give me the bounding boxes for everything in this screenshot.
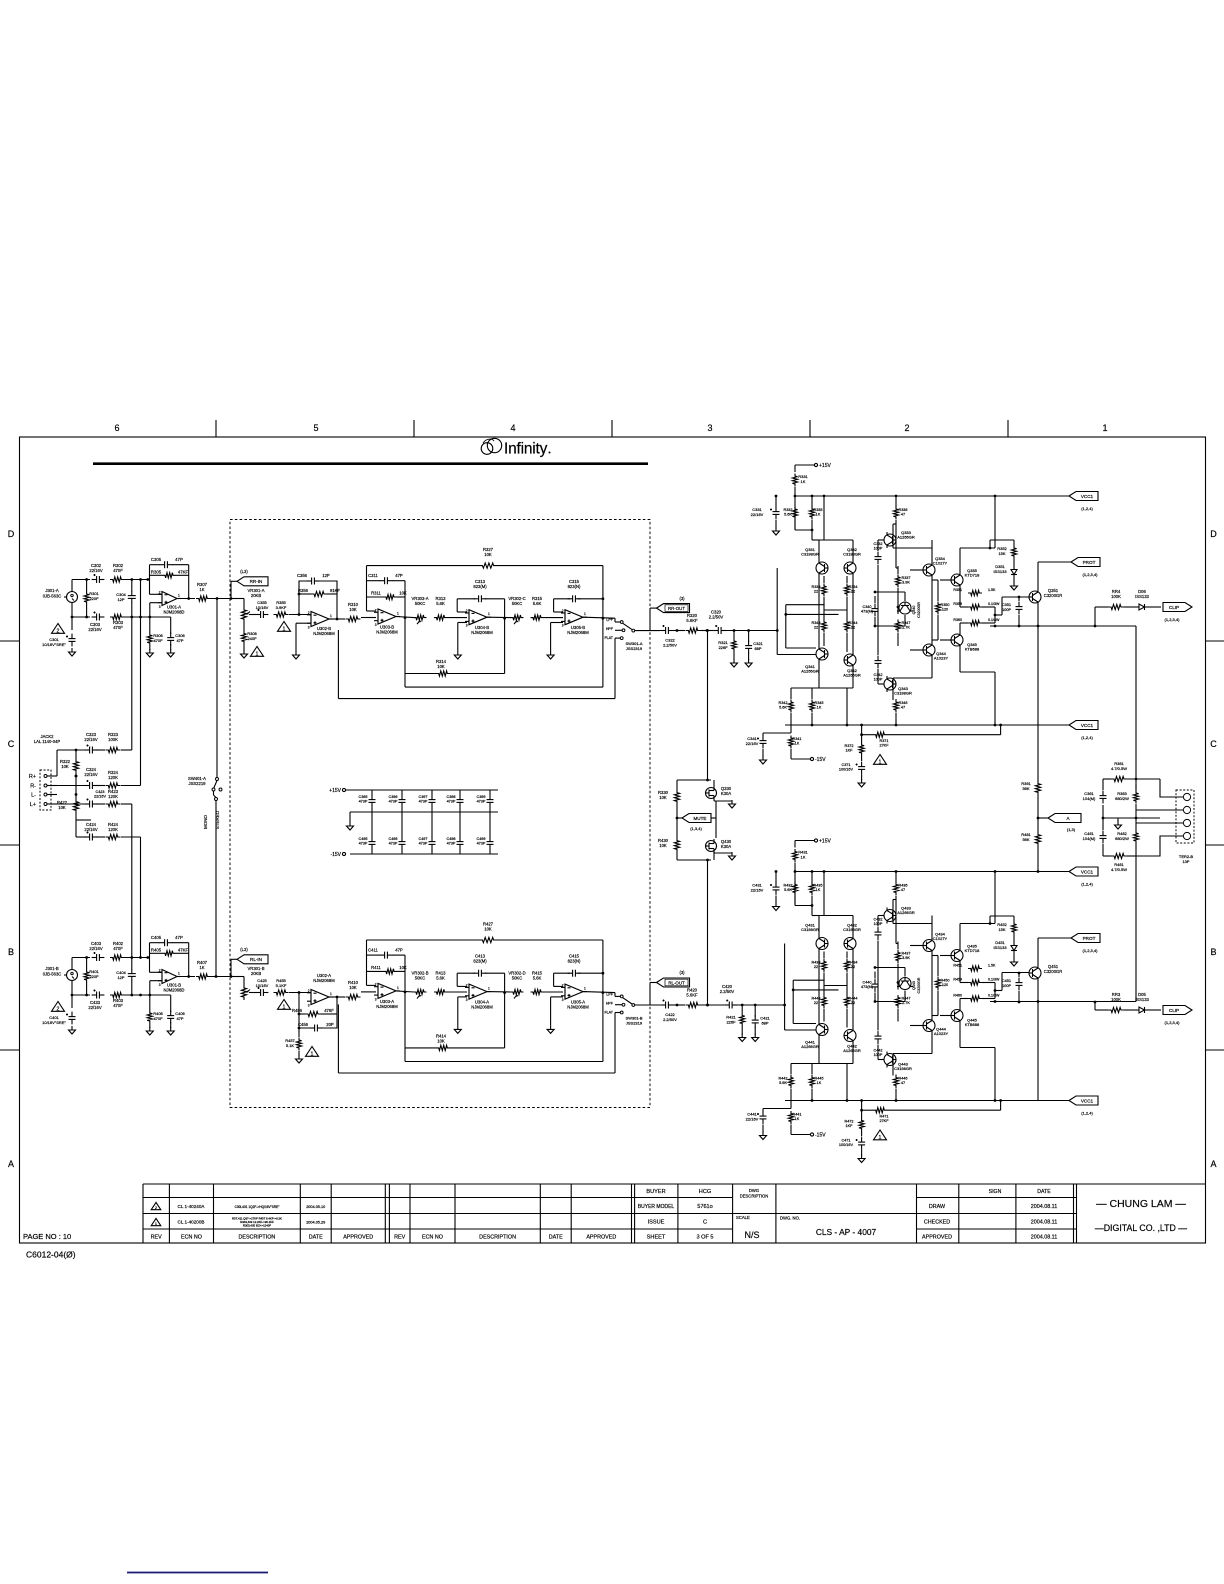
svg-text:C: C [1210, 739, 1217, 749]
ground [146, 1027, 153, 1035]
svg-text:K30A: K30A [721, 791, 731, 796]
flag RL-OUT [650, 970, 690, 1005]
svg-text:10/16V: 10/16V [256, 983, 269, 988]
resistor R402 [110, 941, 124, 960]
svg-text:4.7/0.5W: 4.7/0.5W [1111, 766, 1127, 771]
connector TER2-B [1176, 790, 1194, 864]
wire [1037, 562, 1071, 781]
op-amp U302-A [307, 973, 335, 1007]
flag VCC1 upper [1069, 492, 1098, 512]
svg-text:2004.05.10: 2004.05.10 [306, 1205, 325, 1209]
resistor R447 [895, 995, 910, 1008]
svg-text:R346: R346 [898, 701, 907, 705]
svg-text:NJM2068M: NJM2068M [313, 978, 335, 983]
resistor R442 [778, 1075, 793, 1088]
svg-text:DESCRIPTION: DESCRIPTION [238, 1234, 275, 1240]
wire [812, 916, 853, 936]
svg-text:C3198GR: C3198GR [843, 927, 861, 932]
svg-text:20KB: 20KB [251, 971, 261, 976]
svg-text:C451: C451 [1002, 979, 1011, 983]
wire [57, 750, 86, 776]
sign header [989, 1189, 1002, 1195]
wire [677, 629, 709, 790]
svg-text:22/16V: 22/16V [89, 946, 102, 951]
svg-text:R437: R437 [901, 952, 910, 956]
svg-text:1: 1 [488, 612, 490, 616]
feedback column [791, 870, 899, 1102]
wire [298, 1028, 300, 1056]
capacitor C341 [746, 733, 791, 757]
sheet label [647, 1234, 666, 1240]
svg-text:C499: C499 [476, 837, 485, 841]
svg-text:R351: R351 [953, 588, 962, 592]
right rail [1135, 626, 1137, 779]
transistor Q430 [706, 839, 732, 853]
resistor R460 [953, 994, 1000, 1002]
svg-text:R336: R336 [898, 508, 907, 512]
svg-text:DWG: DWG [749, 1188, 759, 1193]
svg-text:470F: 470F [153, 638, 163, 643]
svg-text:R335: R335 [813, 508, 822, 512]
capacitor C456 [298, 1022, 334, 1032]
svg-text:C495: C495 [358, 837, 367, 841]
capacitor C404 [116, 970, 136, 981]
wire [898, 548, 932, 600]
ground [347, 822, 354, 830]
resistor R371 [860, 724, 1002, 748]
svg-text:2: 2 [466, 609, 468, 613]
wire [791, 688, 853, 733]
warning triangle 2 [52, 624, 65, 635]
resistor R421 [726, 1005, 745, 1035]
svg-text:—DIGITAL CO. ,LTD —: —DIGITAL CO. ,LTD — [1095, 1223, 1187, 1233]
svg-text:C396: C396 [388, 795, 397, 799]
svg-text:DWG. NO.: DWG. NO. [780, 1216, 800, 1221]
svg-text:1KF: 1KF [846, 748, 854, 752]
capacitor C415 [568, 953, 581, 976]
ground [296, 1055, 303, 1063]
svg-text:104(M): 104(M) [1083, 836, 1096, 841]
svg-text:1: 1 [311, 1051, 314, 1057]
ground [739, 1034, 746, 1042]
svg-text:120K: 120K [108, 775, 118, 780]
svg-text:3: 3 [159, 983, 161, 987]
svg-text:680/2W: 680/2W [1115, 836, 1129, 841]
svg-text:C1027Y: C1027Y [933, 561, 948, 566]
resistor R456 [292, 1008, 334, 1017]
svg-text:473P: 473P [477, 800, 486, 804]
svg-text:240F: 240F [247, 636, 257, 641]
ground [760, 756, 767, 764]
svg-text:470F: 470F [113, 946, 123, 951]
svg-text:1K: 1K [816, 888, 821, 892]
capacitor C356 [297, 573, 330, 585]
wire [232, 977, 244, 986]
resistor R337 [895, 575, 910, 588]
svg-text:56K: 56K [1022, 837, 1029, 842]
svg-text:A1266GR: A1266GR [843, 673, 861, 678]
resistor R462 [1115, 818, 1138, 856]
svg-text:C423: C423 [95, 790, 104, 794]
svg-text:(1,2,3,4): (1,2,3,4) [1083, 948, 1099, 953]
svg-text:22/16V: 22/16V [84, 772, 97, 777]
ground [547, 997, 563, 1034]
svg-text:10K: 10K [659, 795, 667, 800]
transistor Q340 [897, 602, 921, 618]
resistor R335 [809, 507, 822, 520]
capacitor C425 [256, 978, 269, 996]
transistor Q451 [1029, 964, 1062, 981]
svg-text:C311: C311 [368, 573, 378, 578]
feedback loop [405, 673, 505, 675]
power +15V [795, 839, 831, 848]
svg-text:3: 3 [707, 423, 712, 433]
svg-text:NJM2068M: NJM2068M [313, 631, 335, 636]
svg-text:1K: 1K [795, 1117, 800, 1121]
svg-text:C340: C340 [862, 605, 871, 609]
capacitor C323 [84, 732, 97, 754]
svg-text:10K: 10K [484, 926, 492, 931]
middle loop [405, 1048, 603, 1062]
approved row [922, 1234, 1057, 1240]
svg-text:ISS133: ISS133 [993, 569, 1007, 574]
svg-text:NJM2068M: NJM2068M [376, 1004, 398, 1009]
op-amp U305-A [561, 983, 589, 1009]
wire [150, 972, 163, 995]
svg-text:NJM2068M: NJM2068M [376, 630, 398, 635]
svg-text:A: A [8, 1159, 14, 1169]
flag CLIP lower [1163, 1006, 1192, 1026]
svg-text:47P: 47P [175, 557, 183, 562]
svg-text:(3): (3) [679, 596, 685, 601]
resistor R343 [811, 620, 826, 633]
wire [701, 629, 714, 632]
svg-text:470F: 470F [113, 568, 123, 573]
svg-text:3: 3 [562, 998, 564, 1002]
svg-text:0.1/3W: 0.1/3W [988, 618, 1000, 622]
pot VR301-A [241, 588, 264, 622]
zone labels [8, 423, 1218, 1169]
warning triangle 1 [874, 755, 887, 766]
resistor R435 [809, 882, 822, 895]
svg-text:1: 1 [584, 612, 586, 616]
svg-text:R372: R372 [844, 744, 853, 748]
svg-text:1K: 1K [817, 705, 822, 709]
buyer model label [638, 1204, 675, 1210]
svg-text:823(M): 823(M) [473, 584, 487, 589]
svg-text:226F: 226F [718, 645, 728, 650]
Infinity logo [481, 438, 550, 457]
svg-text:C: C [8, 739, 15, 749]
jack J301-B [43, 966, 78, 981]
svg-text:K30A: K30A [721, 844, 731, 849]
svg-text:100K: 100K [1111, 997, 1121, 1002]
svg-text:APPROVED: APPROVED [343, 1234, 373, 1240]
svg-text:C440: C440 [862, 981, 871, 985]
svg-text:5.6K: 5.6K [533, 975, 542, 980]
wire [177, 597, 195, 600]
pot VR301-B [241, 966, 264, 1000]
wire [289, 614, 311, 616]
svg-text:BUYER: BUYER [646, 1189, 665, 1195]
svg-text:2.2/50V: 2.2/50V [720, 989, 735, 994]
svg-text:15K: 15K [998, 927, 1005, 932]
svg-text:47P: 47P [176, 1016, 183, 1021]
resistor R344 [844, 620, 857, 633]
svg-text:NJM2068M: NJM2068M [567, 630, 589, 635]
svg-text:1.5K: 1.5K [988, 588, 996, 592]
svg-text:C3198GR: C3198GR [894, 1066, 912, 1071]
feedback wire [367, 940, 406, 985]
svg-text:1: 1 [283, 1004, 286, 1010]
svg-text:A1266GR: A1266GR [801, 669, 819, 674]
svg-text:27KF: 27KF [879, 743, 889, 747]
outer loop [338, 1004, 615, 1073]
feedback wire [554, 940, 605, 1062]
svg-text:823(N): 823(N) [568, 584, 581, 589]
svg-text:2: 2 [375, 608, 377, 612]
resistor R315 [531, 596, 544, 620]
wire [677, 818, 714, 1006]
svg-text:R-: R- [30, 784, 36, 790]
svg-text:10K: 10K [399, 965, 407, 970]
svg-text:DATE: DATE [309, 1234, 323, 1240]
resistor RR3 [1108, 992, 1124, 1013]
resistor R446 [893, 1075, 907, 1102]
bottom rail [350, 853, 498, 855]
capacitor C401 [42, 1012, 75, 1025]
capacitor C320 [709, 610, 726, 635]
company name [1095, 1198, 1187, 1233]
svg-text:R341: R341 [792, 737, 801, 741]
svg-text:47P: 47P [395, 573, 403, 578]
title underline [93, 462, 648, 465]
capacitor C321 [745, 631, 763, 661]
svg-text:R459: R459 [953, 978, 962, 982]
feedback wire [298, 991, 339, 1029]
resistor R320 [686, 613, 701, 633]
capacitor C371 [839, 762, 865, 780]
svg-text:100P: 100P [1002, 984, 1011, 988]
transistor Q334 [923, 556, 948, 578]
svg-text:120K: 120K [108, 794, 118, 799]
svg-text:L+: L+ [30, 802, 36, 808]
svg-text:5.6KF: 5.6KF [686, 618, 698, 623]
ground [454, 997, 467, 1034]
svg-text:R447: R447 [901, 997, 910, 1001]
svg-text:100/16V: 100/16V [839, 1143, 854, 1147]
svg-text:473P: 473P [419, 842, 428, 846]
svg-text:(L3): (L3) [240, 947, 248, 952]
svg-text:R332: R332 [783, 508, 792, 512]
resistor R342 [778, 700, 793, 713]
svg-text:473P: 473P [359, 842, 368, 846]
svg-text:473P: 473P [389, 800, 398, 804]
svg-text:R345: R345 [814, 701, 823, 705]
svg-text:2: 2 [466, 983, 468, 987]
resistor R359 [953, 602, 1000, 610]
op-amp U303-B [374, 608, 400, 634]
svg-text:22/16V: 22/16V [88, 627, 101, 632]
svg-text:47: 47 [901, 888, 905, 892]
svg-text:R405: R405 [151, 948, 162, 953]
svg-text:22/16V: 22/16V [746, 1116, 759, 1121]
svg-text:2: 2 [159, 590, 161, 594]
svg-text:ISS133: ISS133 [1135, 594, 1149, 599]
svg-text:(3): (3) [679, 970, 685, 975]
svg-text:27KF: 27KF [879, 1119, 889, 1123]
capacitor C340 [861, 596, 879, 626]
svg-text:B: B [1210, 947, 1216, 957]
svg-text:B: B [8, 947, 14, 957]
ground [858, 779, 865, 787]
diode D451 [993, 940, 1017, 954]
svg-text:R435: R435 [813, 884, 822, 888]
svg-text:100K: 100K [1111, 594, 1121, 599]
wire [150, 594, 163, 617]
jack2 label [34, 734, 61, 744]
svg-text:C405: C405 [151, 935, 162, 940]
resistor R430 [658, 838, 680, 852]
ground [773, 903, 780, 911]
svg-text:470F: 470F [113, 625, 123, 630]
vertical node wire [404, 955, 406, 1048]
wire [791, 1064, 853, 1109]
drawing number [816, 1227, 877, 1237]
svg-text:5.6K: 5.6K [779, 1081, 787, 1085]
wire [289, 992, 311, 994]
capacitor C361 [1083, 791, 1107, 804]
svg-text:KTD718: KTD718 [965, 948, 980, 953]
wire [72, 958, 90, 1009]
resistor R471 [860, 1099, 1002, 1123]
svg-text:1K: 1K [199, 587, 204, 592]
svg-text:R360: R360 [953, 618, 962, 622]
svg-text:(1,2,4): (1,2,4) [1081, 506, 1093, 511]
resistor R405 [151, 948, 189, 956]
svg-text:R305: R305 [151, 570, 162, 575]
feedback wire [457, 973, 506, 1048]
svg-text:1: 1 [584, 987, 586, 991]
power -15V [791, 1125, 826, 1139]
svg-text:1: 1 [330, 992, 332, 996]
wire [216, 599, 218, 778]
svg-text:MUTE: MUTE [693, 816, 706, 821]
svg-text:REV: REV [394, 1234, 405, 1240]
transistor Q444 [923, 1018, 948, 1037]
wire [931, 592, 933, 630]
svg-text:JSS2319: JSS2319 [626, 1020, 643, 1025]
feedback loop [405, 1047, 505, 1049]
svg-text:1: 1 [155, 1222, 157, 1226]
resistor R423 [106, 789, 121, 807]
svg-text:120K: 120K [108, 827, 118, 832]
transistor Q445 [951, 1008, 980, 1028]
svg-text:473P: 473P [447, 842, 456, 846]
transistor Q343 [884, 676, 912, 696]
dwg no label [780, 1216, 800, 1221]
wire [615, 618, 660, 638]
svg-text:0.1/3W: 0.1/3W [988, 994, 1000, 998]
buyer value [699, 1189, 711, 1195]
wire [249, 992, 256, 994]
svg-text:A1266GR: A1266GR [897, 910, 915, 915]
svg-text:13P: 13P [1182, 859, 1189, 864]
capacitor C313 [473, 579, 487, 602]
svg-text:10/16V"SRE": 10/16V"SRE" [42, 642, 66, 647]
svg-text:VCC1: VCC1 [1081, 869, 1094, 874]
svg-text:47KF: 47KF [178, 948, 189, 953]
capacitor C305 [151, 557, 183, 568]
wire [940, 560, 960, 660]
wire [1094, 607, 1161, 627]
svg-text:SIGN: SIGN [989, 1189, 1002, 1195]
svg-text:R305,405 820->1240F: R305,405 820->1240F [243, 1224, 271, 1228]
resistor R481 [1021, 832, 1040, 846]
svg-text:R442: R442 [778, 1077, 787, 1081]
svg-text:2: 2 [904, 423, 909, 433]
svg-text:473P: 473P [477, 842, 486, 846]
wire [960, 964, 1029, 999]
transistor Q331 [801, 547, 828, 576]
svg-text:(1,2,4): (1,2,4) [1081, 1111, 1093, 1116]
capacitor bank C495-C499 [358, 790, 493, 854]
resistor R336 [893, 507, 907, 520]
svg-text:ISS133: ISS133 [993, 945, 1007, 950]
svg-text:C351: C351 [1002, 603, 1011, 607]
capacitor C440 [861, 972, 879, 1002]
svg-text:HCG: HCG [699, 1189, 711, 1195]
svg-text:22: 22 [814, 625, 818, 629]
wire [878, 524, 896, 575]
transistor Q351 [1029, 588, 1062, 605]
resistor R330 [658, 790, 680, 804]
svg-text:20P: 20P [326, 1022, 334, 1027]
revision row 2 description [235, 1205, 280, 1209]
zone ticks [0, 420, 1224, 1050]
feedback wire [150, 943, 189, 977]
resistor R401 [84, 956, 100, 996]
wire [824, 576, 847, 610]
svg-text:12P: 12P [117, 975, 124, 980]
wire [210, 597, 232, 600]
svg-text:10K: 10K [61, 764, 69, 769]
svg-text:R460: R460 [953, 994, 962, 998]
svg-text:R311: R311 [371, 591, 381, 596]
svg-text:J301-B: J301-B [45, 966, 58, 971]
wire [910, 1006, 932, 1046]
svg-text:R+: R+ [29, 774, 36, 780]
resistor R427 [479, 921, 497, 942]
buyer label [646, 1189, 665, 1195]
flag PROT upper [1071, 558, 1100, 578]
svg-text:22: 22 [814, 965, 818, 969]
wire [726, 629, 777, 632]
right rail lower [1135, 856, 1137, 1002]
warning triangle 2 [52, 1002, 65, 1013]
svg-text:47P: 47P [176, 638, 183, 643]
transistor Q442 [843, 1028, 861, 1054]
svg-text:0.1/3W: 0.1/3W [988, 978, 1000, 982]
bus wire [131, 804, 133, 995]
resistor R308 [241, 631, 257, 644]
resistor R314 [436, 659, 450, 676]
capacitor C451 [1002, 972, 1023, 1004]
ground [731, 659, 738, 667]
svg-text:10K: 10K [659, 843, 667, 848]
svg-text:LAL 1140-04P: LAL 1140-04P [34, 739, 61, 744]
svg-text:20KB: 20KB [251, 593, 261, 598]
